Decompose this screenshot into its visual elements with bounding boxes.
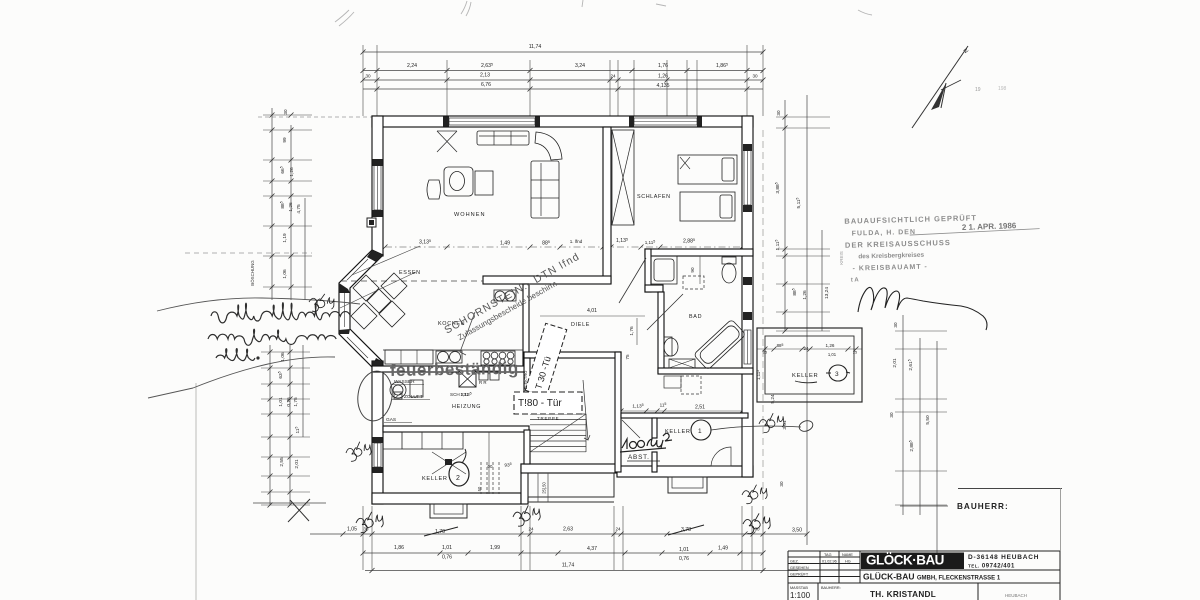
svg-text:0,76: 0,76 bbox=[442, 555, 452, 561]
couch right Wohnen bbox=[531, 161, 559, 218]
svg-text:3,01: 3,01 bbox=[782, 420, 788, 430]
svg-text:ABST.: ABST. bbox=[628, 454, 650, 461]
svg-text:2,51: 2,51 bbox=[695, 405, 705, 411]
stair block left wall bbox=[524, 358, 530, 408]
bauherr box line bbox=[958, 488, 1062, 490]
stair block left wall lower segment bbox=[524, 430, 530, 464]
handwritten note left line 1 bbox=[208, 303, 350, 361]
svg-text:90: 90 bbox=[690, 267, 695, 273]
right dimension column near wall bbox=[762, 130, 764, 500]
dashed extension to top-left wall corner bbox=[258, 116, 372, 118]
kitchen cabinets left bbox=[385, 350, 433, 364]
svg-text:ZOLUFT: ZOLUFT bbox=[404, 394, 423, 400]
bed 1 Schlafen bbox=[678, 155, 737, 184]
shower Bad bbox=[651, 256, 677, 284]
hand 365 left of bay bbox=[308, 293, 335, 312]
Keller2 shelving bbox=[402, 432, 463, 449]
bed 2 Schlafen bbox=[680, 192, 735, 221]
svg-text:t A: t A bbox=[851, 277, 860, 283]
svg-text:2 1. APR. 1986: 2 1. APR. 1986 bbox=[962, 221, 1017, 232]
svg-text:4,01: 4,01 bbox=[587, 308, 597, 314]
exterior wall bottom right section bbox=[617, 466, 753, 477]
svg-text:BAUHERR:: BAUHERR: bbox=[957, 502, 1009, 511]
wall Wohnen bottom solid part bbox=[483, 276, 611, 284]
svg-text:HEIZUNG: HEIZUNG bbox=[452, 404, 481, 410]
wall Abst/Keller1 divider bbox=[652, 418, 657, 438]
dimension chain top row 4 bbox=[363, 88, 763, 90]
pencil pointer lines bbox=[157, 298, 360, 311]
hand 1.00 m2 bbox=[620, 433, 672, 452]
svg-text:99: 99 bbox=[282, 137, 288, 143]
storage dashed Keller1 bbox=[681, 376, 701, 394]
svg-text:GEZ.: GEZ. bbox=[790, 560, 799, 564]
hand 365 entrance bbox=[511, 503, 542, 528]
svg-text:1,76: 1,76 bbox=[658, 63, 668, 69]
door marks Abst bbox=[622, 420, 640, 438]
svg-text:1,49: 1,49 bbox=[718, 546, 728, 552]
svg-text:BÖSCHUNG: BÖSCHUNG bbox=[250, 260, 255, 286]
exterior wall top bbox=[372, 116, 753, 127]
bottom dimension chain row 2 bbox=[363, 552, 763, 554]
svg-text:HEUBACH: HEUBACH bbox=[1005, 593, 1027, 598]
svg-text:25|,50: 25|,50 bbox=[542, 482, 547, 494]
hand 365 bottom left bbox=[354, 510, 385, 534]
wall Abst top piece bbox=[621, 413, 748, 418]
svg-text:feuerbeständig: feuerbeständig bbox=[390, 359, 519, 380]
faint page line left bbox=[195, 383, 197, 600]
svg-text:1,01: 1,01 bbox=[828, 352, 837, 357]
svg-text:75: 75 bbox=[625, 354, 630, 360]
window right wall (Schlafen) bbox=[744, 150, 751, 205]
svg-text:R R: R R bbox=[479, 380, 487, 385]
svg-text:HG: HG bbox=[845, 560, 851, 564]
svg-text:11,74: 11,74 bbox=[529, 44, 542, 50]
signature squiggle bbox=[858, 287, 987, 330]
svg-text:SCH 231: SCH 231 bbox=[450, 392, 469, 397]
cross diagonal marks Keller2 bbox=[432, 452, 466, 474]
svg-text:25: 25 bbox=[853, 351, 857, 355]
stair block right wall bbox=[615, 352, 621, 472]
extension lines from top chain to wall bbox=[362, 45, 364, 116]
svg-text:2: 2 bbox=[456, 475, 460, 482]
chimney block SCH bbox=[459, 371, 476, 387]
small horizontal line with cross-out lower left bbox=[253, 502, 326, 504]
svg-text:24: 24 bbox=[528, 527, 534, 532]
hand 365 heizung left bbox=[344, 439, 373, 463]
terrace step bottom right bbox=[668, 477, 707, 493]
svg-text:24: 24 bbox=[615, 527, 621, 532]
open boundary Wohnen/Essen dashed bbox=[341, 280, 483, 282]
kitchen corner sink upper bbox=[495, 291, 505, 301]
svg-text:1,05: 1,05 bbox=[347, 527, 357, 533]
T80 door boxed label bbox=[514, 392, 582, 414]
svg-text:GLÖCK·BAU: GLÖCK·BAU bbox=[866, 551, 944, 567]
svg-text:TREPPE: TREPPE bbox=[537, 416, 559, 421]
svg-text:1,49: 1,49 bbox=[500, 241, 510, 247]
heizung boiler bbox=[390, 382, 406, 398]
svg-text:4,75: 4,75 bbox=[296, 204, 302, 214]
armchair Wohnen bbox=[444, 167, 473, 196]
svg-text:30: 30 bbox=[365, 74, 371, 79]
sink Bad bbox=[664, 337, 672, 356]
svg-text:0,76: 0,76 bbox=[286, 397, 292, 407]
main stairs Treppe bbox=[530, 413, 586, 415]
armchair small left bbox=[427, 180, 441, 199]
stair diagonal cut bbox=[530, 414, 586, 452]
svg-text:ELEKTRO: ELEKTRO bbox=[523, 371, 528, 390]
svg-text:3,24: 3,24 bbox=[575, 63, 585, 69]
porch / cellar steps bottom left bbox=[430, 504, 467, 518]
kitchen right wall bbox=[523, 284, 529, 366]
svg-text:13,24: 13,24 bbox=[824, 287, 830, 299]
svg-text:DIELE: DIELE bbox=[571, 322, 590, 328]
svg-text:2,13: 2,13 bbox=[480, 73, 490, 79]
svg-text:2,55: 2,55 bbox=[279, 457, 285, 467]
svg-text:0,76: 0,76 bbox=[679, 556, 689, 562]
dimension chain top row 3 bbox=[363, 79, 763, 81]
dining diamonds Essen bbox=[353, 275, 379, 301]
svg-text:6,76: 6,76 bbox=[481, 82, 491, 88]
bottom dimension chain row 3 total bbox=[365, 570, 798, 572]
svg-text:1,26: 1,26 bbox=[289, 167, 295, 177]
hand 365 right of Abst bbox=[757, 411, 786, 434]
svg-text:1,01: 1,01 bbox=[278, 397, 284, 407]
Keller3 dim row bbox=[757, 348, 862, 350]
kitchen sink bbox=[438, 352, 449, 363]
svg-text:3: 3 bbox=[835, 371, 839, 378]
svg-text:GAS: GAS bbox=[386, 417, 396, 423]
svg-text:TAG: TAG bbox=[824, 553, 832, 557]
svg-text:1,99: 1,99 bbox=[490, 545, 500, 551]
washing machine crossed Bad bbox=[669, 359, 695, 368]
T30 door rotated label bbox=[525, 323, 567, 396]
svg-text:1,75: 1,75 bbox=[293, 397, 299, 407]
sill mark left wall bbox=[367, 218, 376, 227]
svg-text:2,01: 2,01 bbox=[892, 358, 898, 368]
bay windows thin center lines bbox=[347, 259, 368, 280]
exterior wall bottom left section bbox=[372, 493, 521, 504]
bathtub Bad bbox=[693, 319, 745, 370]
wall Heizung/Keller2 bbox=[383, 426, 529, 432]
svg-text:5,50: 5,50 bbox=[925, 415, 931, 425]
kitchen stove bbox=[481, 351, 515, 365]
svg-text:24: 24 bbox=[804, 346, 809, 351]
left dimension column upper bbox=[271, 108, 273, 300]
official stamp (faded) bbox=[844, 212, 1041, 284]
svg-text:1,01: 1,01 bbox=[679, 547, 689, 553]
svg-text:1,86: 1,86 bbox=[394, 545, 404, 551]
svg-text:WOHNEN: WOHNEN bbox=[454, 212, 485, 218]
svg-text:30: 30 bbox=[889, 412, 894, 418]
leader lines essen bbox=[352, 246, 420, 275]
Bad bottom wall bbox=[658, 368, 753, 374]
svg-text:SCHLAFEN: SCHLAFEN bbox=[637, 194, 671, 200]
wall Schlafen/Bad bbox=[645, 249, 753, 256]
exterior wall left upper bbox=[372, 116, 383, 256]
svg-text:NAME: NAME bbox=[842, 553, 853, 557]
svg-text:1,19: 1,19 bbox=[282, 233, 288, 243]
dimension chain top row 2 bbox=[363, 70, 763, 72]
svg-text:BAUHERR:: BAUHERR: bbox=[821, 586, 841, 590]
WC Bad bbox=[722, 257, 736, 264]
hand 365 right terrace bbox=[740, 483, 768, 505]
svg-text:4,37: 4,37 bbox=[587, 546, 597, 552]
wall posts top bbox=[372, 117, 383, 127]
svg-text:T!80 - Tür: T!80 - Tür bbox=[518, 398, 562, 409]
svg-text:01.02.96: 01.02.96 bbox=[822, 560, 837, 564]
svg-text:GESEHEN: GESEHEN bbox=[790, 566, 809, 570]
svg-text:19: 19 bbox=[975, 87, 981, 93]
svg-text:1,26: 1,26 bbox=[658, 74, 668, 80]
svg-text:11,74: 11,74 bbox=[562, 563, 575, 569]
svg-text:30: 30 bbox=[893, 322, 898, 328]
window left wall lower bbox=[374, 443, 381, 467]
kitchen counter bottom bbox=[383, 349, 523, 351]
door swing Keller1 terrace bbox=[711, 447, 731, 466]
svg-text:KREIS: KREIS bbox=[839, 251, 844, 265]
svg-text:3,50: 3,50 bbox=[792, 528, 802, 534]
svg-text:24: 24 bbox=[610, 74, 616, 79]
svg-text:MASSTAB: MASSTAB bbox=[790, 586, 808, 590]
basement stairs Keller2 bbox=[480, 462, 482, 494]
interior dimension chain y=412 (Abst/Keller1) bbox=[621, 410, 748, 412]
bottom dimension chain row 1 bbox=[310, 533, 807, 535]
hand ellipse around Zuluft bbox=[355, 369, 396, 423]
svg-text:1,01: 1,01 bbox=[442, 545, 452, 551]
svg-text:00: 00 bbox=[488, 464, 493, 469]
north arrow bbox=[912, 46, 968, 128]
svg-text:30: 30 bbox=[283, 109, 288, 115]
handwritten 36,5 marks bbox=[459, 184, 461, 186]
opening right wall to Keller3 bbox=[744, 284, 752, 312]
left dimension column lower bbox=[269, 345, 271, 505]
window top wall right bbox=[634, 118, 697, 125]
exterior wall left lower bbox=[372, 361, 383, 504]
leader line schornstein bbox=[460, 312, 475, 355]
svg-text:D-36148 HEUBACH: D-36148 HEUBACH bbox=[968, 554, 1039, 561]
svg-text:KELLER: KELLER bbox=[422, 476, 448, 482]
Keller 3 annex outer wall bbox=[757, 328, 862, 402]
extension lines bottom bbox=[362, 506, 364, 570]
dimension chain top row 11,74 bbox=[363, 51, 763, 53]
svg-text:1,06: 1,06 bbox=[282, 269, 288, 279]
window right wall (Bad) bbox=[744, 330, 751, 364]
sofa corner piece bbox=[535, 132, 562, 160]
svg-text:4,135: 4,135 bbox=[657, 83, 670, 89]
svg-text:TH. KRISTANDL: TH. KRISTANDL bbox=[870, 590, 936, 599]
right dimension column outer bbox=[902, 315, 904, 515]
interior wall Wohnen/Schlafen bbox=[603, 127, 611, 283]
svg-text:GEPRÜFT: GEPRÜFT bbox=[790, 573, 809, 577]
svg-text:BAD: BAD bbox=[689, 314, 702, 320]
stair block top wall bbox=[524, 352, 621, 358]
svg-text:2,01: 2,01 bbox=[294, 459, 300, 469]
wardrobe Schlafen crossed bbox=[612, 130, 634, 225]
window top wall left bbox=[449, 118, 535, 125]
door swing Bad bbox=[647, 294, 683, 330]
svg-text:1,26: 1,26 bbox=[288, 202, 294, 212]
chimney flue mark Wohnen top-left bbox=[437, 131, 457, 152]
exterior wall right bbox=[742, 116, 753, 477]
side table Wohnen bbox=[475, 171, 493, 195]
svg-text:30: 30 bbox=[779, 481, 784, 487]
svg-text:198: 198 bbox=[998, 86, 1007, 92]
bay corner posts bbox=[367, 250, 383, 262]
title block frame bbox=[788, 551, 1060, 600]
svg-text:1,26: 1,26 bbox=[826, 343, 835, 348]
Bad left wall lower bbox=[658, 292, 664, 373]
svg-text:1. lfnd: 1. lfnd bbox=[570, 239, 583, 244]
GLUECKBAU logo black box bbox=[861, 553, 964, 570]
svg-text:2,63: 2,63 bbox=[563, 527, 573, 533]
leader line Keller1 bbox=[711, 426, 801, 430]
sofa top Wohnen bbox=[477, 131, 529, 145]
bay wall (Essen) bbox=[339, 250, 383, 367]
svg-text:1: 1 bbox=[698, 428, 702, 435]
door swing Diele/Schlafen bbox=[619, 258, 646, 303]
svg-text:1,26: 1,26 bbox=[802, 290, 808, 300]
scan artifact marks top edge bbox=[335, 0, 872, 26]
svg-text:30: 30 bbox=[752, 74, 758, 79]
svg-text:1:100: 1:100 bbox=[790, 591, 811, 600]
hand 365 bottom right bbox=[742, 511, 772, 534]
entrance section wall step bbox=[521, 464, 528, 504]
dashed closet Bad bbox=[683, 276, 704, 289]
title block small labels bbox=[790, 553, 853, 590]
Bad left wall upper bbox=[645, 249, 651, 292]
entrance porch slab bbox=[528, 473, 614, 497]
window left wall bbox=[374, 165, 381, 210]
svg-text:KELLER: KELLER bbox=[792, 373, 818, 379]
svg-text:2,24: 2,24 bbox=[407, 63, 417, 69]
fire wall Kochen/Heizung bbox=[372, 366, 529, 372]
diagonal stamp SCHORNSTEIN bbox=[442, 250, 587, 346]
svg-text:30: 30 bbox=[776, 110, 781, 116]
interior dimension chain y=247 bbox=[385, 246, 745, 248]
svg-text:WASSER: WASSER bbox=[394, 379, 415, 385]
svg-text:1,76: 1,76 bbox=[629, 326, 635, 336]
